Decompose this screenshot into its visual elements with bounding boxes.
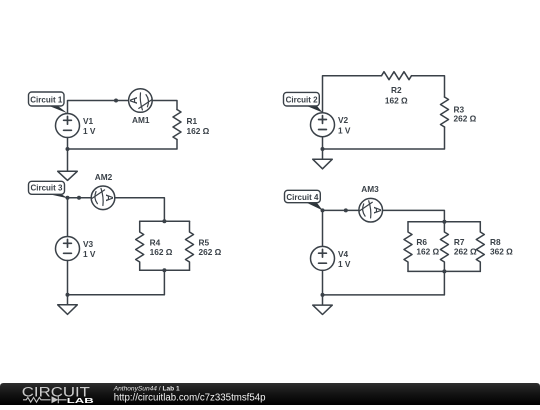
voltage source V3 [56, 237, 80, 261]
junction dot bottom circuit 3 [66, 293, 70, 297]
junction dot top wire circuit 1 [114, 99, 118, 103]
wire parallel bank to bottom [323, 271, 445, 295]
ground circuit 1 [67, 149, 69, 171]
junction dot top rail circuit 3 [162, 219, 166, 223]
voltage source V4 [311, 246, 335, 270]
junction dot wire circuit 4 [344, 208, 348, 212]
top rail circuit 3 [140, 220, 190, 222]
svg-text:162 Ω: 162 Ω [416, 247, 439, 257]
svg-text:http://circuitlab.com/c7z335tm: http://circuitlab.com/c7z335tmsf54p [114, 392, 266, 403]
svg-text:1 V: 1 V [338, 259, 351, 269]
junction dot node circuit 3 [66, 196, 70, 200]
resistor R3 [441, 97, 449, 127]
svg-text:R1: R1 [187, 116, 198, 126]
ammeter AM1 [129, 89, 153, 113]
ground circuit 2 [322, 149, 324, 159]
ground circuit 3 [67, 295, 69, 305]
ground circuit 4 [322, 295, 324, 305]
svg-text:AM3: AM3 [361, 184, 379, 194]
svg-text:162 Ω: 162 Ω [187, 126, 210, 136]
wire top from V1 to AM1 [68, 101, 129, 114]
svg-text:162 Ω: 162 Ω [385, 95, 408, 105]
resistor R5 [186, 221, 194, 270]
svg-text:A: A [103, 194, 114, 202]
svg-text:V4: V4 [338, 249, 349, 259]
wire AM1 to R1 [152, 101, 177, 110]
bottom rail circuit 4 [408, 270, 480, 272]
callout label Circuit 1 [46, 105, 68, 114]
resistor R1 [173, 110, 181, 140]
svg-text:A: A [129, 96, 140, 104]
callout label Circuit 3 [44, 193, 68, 198]
svg-text:362 Ω: 362 Ω [490, 247, 513, 257]
callout label Circuit 4 [304, 201, 323, 210]
ammeter AM3 [359, 198, 383, 222]
footer bar background [0, 383, 540, 405]
svg-text:262 Ω: 262 Ω [199, 247, 222, 257]
resistor R8 [476, 222, 484, 272]
svg-text:V2: V2 [338, 115, 349, 125]
resistor R2 [382, 72, 412, 80]
top rail circuit 4 [408, 221, 480, 223]
wire V2 bottom [322, 137, 324, 149]
wire R1 to bottom rail [68, 140, 178, 150]
junction dot top rail circuit 4 [442, 220, 446, 224]
svg-text:AM1: AM1 [132, 115, 150, 125]
svg-text:Circuit 3: Circuit 3 [30, 184, 63, 193]
svg-text:Circuit 2: Circuit 2 [286, 96, 319, 105]
wire R2 to R3 [412, 76, 445, 97]
svg-text:V1: V1 [83, 116, 94, 126]
svg-text:Circuit 1: Circuit 1 [30, 95, 63, 104]
wire AM3 to parallel bank [383, 210, 445, 221]
svg-text:1 V: 1 V [83, 249, 96, 259]
bottom rail circuit 3 [140, 269, 190, 271]
wire V1 bottom [67, 138, 69, 150]
junction dot bottom circuit 4 [321, 293, 325, 297]
junction dot bottom rail circuit 3 [162, 268, 166, 272]
wire V4 top [322, 210, 324, 246]
wire parallel pair to bottom [68, 270, 165, 295]
logo resistor zigzag [23, 397, 51, 402]
junction dot node circuit 4 [321, 208, 325, 212]
resistor R7 [440, 222, 448, 272]
junction dot bottom rail circuit 4 [442, 269, 446, 273]
svg-text:262 Ω: 262 Ω [454, 247, 477, 257]
svg-text:AnthonySun44 / Lab 1: AnthonySun44 / Lab 1 [113, 385, 180, 392]
wire V3 top [67, 198, 69, 237]
wire V3 bottom [67, 261, 69, 295]
wire top from V2 to R2 [323, 76, 382, 113]
wire node to AM2 [68, 197, 92, 199]
wire V4 bottom [322, 270, 324, 295]
junction dot bottom circuit 2 [321, 147, 325, 151]
svg-text:1 V: 1 V [83, 126, 96, 136]
ammeter AM2 [91, 186, 115, 210]
svg-text:R2: R2 [391, 85, 402, 95]
callout label Circuit 2 [304, 105, 323, 113]
svg-text:V3: V3 [83, 239, 94, 249]
svg-text:AM2: AM2 [95, 172, 113, 182]
junction dot wire circuit 3 [77, 196, 81, 200]
svg-text:Circuit 4: Circuit 4 [286, 193, 319, 202]
resistor R6 [404, 222, 412, 272]
resistor R4 [136, 221, 144, 270]
svg-text:162 Ω: 162 Ω [150, 247, 173, 257]
svg-text:262 Ω: 262 Ω [454, 114, 477, 124]
voltage source V2 [311, 113, 335, 137]
svg-text:A: A [371, 207, 382, 215]
voltage source V1 [56, 114, 80, 138]
wire node to AM3 [323, 209, 359, 211]
junction dot bottom circuit 1 [66, 147, 70, 151]
logo diode [52, 396, 59, 403]
svg-text:1 V: 1 V [338, 125, 351, 135]
wire AM2 to parallel pair [115, 198, 164, 222]
svg-text:LAB: LAB [67, 396, 94, 404]
wire R3 to bottom rail [323, 127, 445, 149]
